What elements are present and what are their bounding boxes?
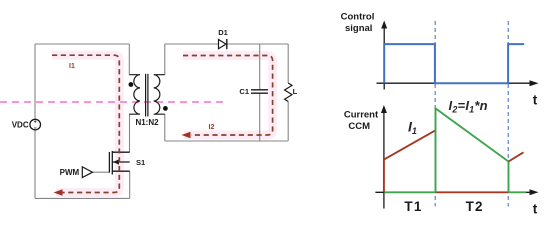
svg-text:L: L xyxy=(293,87,298,96)
svg-text:Current: Current xyxy=(344,110,379,121)
svg-text:T2: T2 xyxy=(466,199,484,214)
svg-text:PWM: PWM xyxy=(60,168,80,177)
svg-text:D1: D1 xyxy=(218,28,228,37)
svg-text:N1:N2: N1:N2 xyxy=(135,118,159,127)
svg-text:CCM: CCM xyxy=(348,121,370,132)
svg-text:I1: I1 xyxy=(69,63,75,70)
svg-text:t: t xyxy=(533,202,538,217)
svg-text:S1: S1 xyxy=(136,158,145,167)
svg-text:signal: signal xyxy=(345,23,372,34)
svg-text:t: t xyxy=(533,93,538,108)
svg-text:VDC: VDC xyxy=(12,121,29,130)
svg-text:T1: T1 xyxy=(404,199,422,214)
svg-text:I2: I2 xyxy=(209,124,215,131)
svg-text:Control: Control xyxy=(341,12,375,23)
svg-text:C1: C1 xyxy=(239,87,249,96)
